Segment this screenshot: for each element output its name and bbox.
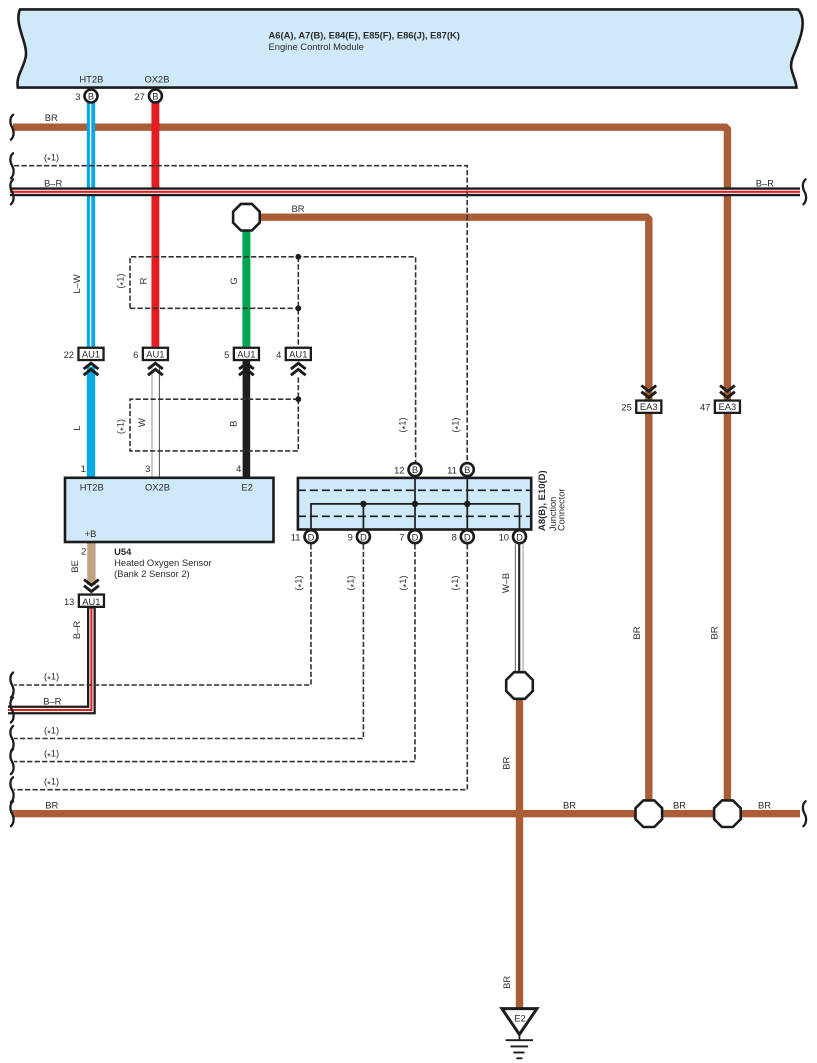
svg-text:A8(B), E10(D): A8(B), E10(D) bbox=[537, 470, 548, 531]
wire break mark left, BR bottom bbox=[10, 801, 13, 826]
svg-text:Connector: Connector bbox=[557, 489, 567, 531]
wire L (blue) AU1 22 to U54 pin 1 bbox=[87, 367, 95, 477]
svg-text:D: D bbox=[412, 531, 419, 542]
wire BE (beige) U54 pin 2 to AU1 13 bbox=[87, 542, 95, 585]
wire break mark right, B-R top bbox=[803, 179, 806, 204]
connector 25 EA3 bbox=[621, 386, 661, 413]
junction pin 10 D bbox=[499, 530, 526, 543]
svg-text:HT2B: HT2B bbox=[80, 482, 104, 493]
svg-text:B–R: B–R bbox=[756, 178, 774, 189]
svg-text:B–R: B–R bbox=[44, 178, 62, 189]
junction pin 12 B bbox=[394, 463, 421, 476]
wire break mark left, (*1) pin 9D bbox=[10, 726, 13, 751]
svg-text:OX2B: OX2B bbox=[144, 74, 169, 85]
dashed box 1 bottom edge bbox=[130, 307, 298, 309]
svg-text:(Bank 2 Sensor 2): (Bank 2 Sensor 2) bbox=[114, 568, 190, 579]
svg-text:47: 47 bbox=[700, 402, 710, 413]
svg-text:A6(A), A7(B), E84(E), E85(F),: A6(A), A7(B), E84(E), E85(F), E86(J), E8… bbox=[269, 30, 460, 41]
connector 5 AU1 bbox=[224, 348, 259, 375]
junction pin 8 D bbox=[452, 530, 474, 543]
connector 47 EA3 bbox=[700, 386, 740, 413]
wire break mark left, B-R top bbox=[10, 179, 13, 204]
svg-text:13: 13 bbox=[64, 596, 74, 607]
svg-text:W: W bbox=[136, 418, 147, 427]
svg-text:BR: BR bbox=[563, 800, 576, 811]
svg-text:+B: +B bbox=[85, 528, 97, 539]
svg-text:8: 8 bbox=[452, 532, 457, 543]
svg-text:EA3: EA3 bbox=[719, 401, 737, 412]
svg-text:BR: BR bbox=[709, 626, 720, 639]
svg-text:BR: BR bbox=[45, 800, 58, 811]
wire R (red) from ECM pin 27 bbox=[151, 103, 159, 347]
junction dot on dashed net bbox=[295, 254, 301, 260]
svg-text:B: B bbox=[152, 91, 158, 102]
junction pin 9 D bbox=[348, 530, 370, 543]
svg-text:B: B bbox=[412, 464, 418, 475]
svg-text:11: 11 bbox=[447, 464, 457, 475]
wire BR from octagon W-B down to ground E2 bbox=[516, 697, 523, 1008]
wire B-R vertical from AU1 13 down and left to edge bbox=[8, 608, 91, 711]
wire break mark left, (*1) dashed bbox=[10, 153, 13, 178]
connector 6 AU1 bbox=[133, 348, 168, 375]
wire B (black) AU1 5 to U54 pin 4 bbox=[243, 361, 251, 477]
svg-text:BR: BR bbox=[673, 800, 686, 811]
svg-text:D: D bbox=[308, 531, 315, 542]
svg-text:U54: U54 bbox=[114, 546, 132, 557]
wire break mark right, BR bottom bbox=[803, 801, 806, 826]
ground symbol E2 bbox=[502, 1009, 537, 1059]
connector 4 AU1 bbox=[276, 348, 311, 375]
wire break mark left, B-R bottom bbox=[10, 698, 13, 723]
wire BR top horizontal + vertical to EA3 47 bbox=[13, 127, 727, 814]
octagon node splice bottom right on BR bbox=[714, 800, 741, 827]
svg-text:BR: BR bbox=[501, 756, 512, 769]
svg-text:11: 11 bbox=[291, 532, 301, 543]
dashed vertical net to AU1 4 lower bbox=[297, 378, 299, 400]
svg-text:AU1: AU1 bbox=[146, 348, 164, 359]
svg-text:B–R: B–R bbox=[71, 621, 82, 639]
junction pin 11 B bbox=[447, 463, 474, 476]
dashed drop junction pin 9D to left edge bbox=[14, 544, 363, 738]
wire break mark left, (*1) pin 8D bbox=[10, 777, 13, 802]
ECM pin 27 circle B bbox=[134, 90, 161, 103]
svg-text:D: D bbox=[516, 531, 523, 542]
junction connector A8(B), E10(D) box bbox=[298, 477, 531, 537]
dashed box 1 top edge to junction pin 12B bbox=[130, 257, 416, 462]
svg-text:BR: BR bbox=[758, 800, 771, 811]
svg-text:B: B bbox=[464, 464, 470, 475]
svg-text:2: 2 bbox=[81, 546, 86, 557]
svg-text:W–B: W–B bbox=[500, 573, 511, 593]
svg-text:D: D bbox=[464, 531, 471, 542]
svg-text:25: 25 bbox=[621, 402, 631, 413]
junction dot on dashed net bbox=[295, 396, 301, 402]
connector 22 AU1 bbox=[64, 348, 104, 375]
dashed drop junction pin 8D to left edge bbox=[14, 544, 467, 790]
svg-text:3: 3 bbox=[145, 463, 150, 474]
wire break mark left, (*1) pin 11D bbox=[10, 673, 13, 698]
svg-text:Engine Control Module: Engine Control Module bbox=[269, 41, 364, 52]
svg-text:4: 4 bbox=[236, 463, 241, 474]
wire G (green) from octagon to AU1 5 bbox=[242, 230, 250, 347]
dashed vertical net to AU1 4 upper bbox=[297, 257, 299, 347]
svg-text:G: G bbox=[228, 277, 239, 284]
octagon node splice (W-B/BR) bbox=[506, 672, 533, 699]
svg-text:AU1: AU1 bbox=[237, 348, 255, 359]
svg-text:10: 10 bbox=[499, 532, 509, 543]
dashed box 2 bbox=[130, 399, 298, 451]
svg-text:6: 6 bbox=[133, 349, 138, 360]
svg-text:HT2B: HT2B bbox=[79, 74, 103, 85]
svg-text:7: 7 bbox=[399, 532, 404, 543]
internal bus bbox=[311, 504, 520, 537]
svg-text:22: 22 bbox=[64, 349, 74, 360]
svg-text:OX2B: OX2B bbox=[145, 482, 170, 493]
svg-text:3: 3 bbox=[75, 91, 80, 102]
octagon node splice (green/BR) bbox=[233, 204, 260, 231]
dashed (*1) top horizontal to junction pin 11B bbox=[14, 166, 467, 462]
ECM pin 3 circle B bbox=[75, 90, 97, 103]
svg-text:12: 12 bbox=[394, 464, 404, 475]
wire W-B junction pin 10 to octagon bbox=[515, 544, 523, 672]
wire B-R horizontal top bbox=[10, 187, 800, 196]
svg-text:E2: E2 bbox=[514, 1013, 525, 1024]
svg-text:1: 1 bbox=[81, 463, 86, 474]
svg-text:E2: E2 bbox=[241, 482, 252, 493]
svg-text:BR: BR bbox=[631, 626, 642, 639]
junction pin 11 D bbox=[291, 530, 318, 543]
wire L-W (blue/white) from ECM pin 3 bbox=[86, 103, 95, 347]
wire W (white) AU1 6 to U54 pin 3 bbox=[152, 365, 159, 477]
svg-text:BR: BR bbox=[45, 112, 58, 123]
svg-text:B–R: B–R bbox=[43, 696, 61, 707]
svg-text:27: 27 bbox=[134, 91, 144, 102]
ECM module band (Engine Control Module) bbox=[17, 9, 802, 87]
svg-text:AU1: AU1 bbox=[289, 348, 307, 359]
wire break mark left, BR top bbox=[10, 115, 13, 140]
dashed drop junction pin 11D to left edge bbox=[14, 544, 311, 685]
octagon node splice bottom left on BR bbox=[636, 800, 663, 827]
svg-text:5: 5 bbox=[224, 349, 229, 360]
wire break mark left, (*1) pin 7D bbox=[10, 749, 13, 774]
svg-text:R: R bbox=[137, 277, 148, 284]
svg-text:B: B bbox=[228, 421, 239, 427]
dashed drop junction pin 7D to left edge bbox=[14, 544, 415, 761]
svg-text:AU1: AU1 bbox=[82, 596, 100, 607]
wire BR from octagon to EA3 25 vertical bbox=[259, 217, 649, 814]
svg-text:BR: BR bbox=[292, 203, 305, 214]
svg-text:D: D bbox=[360, 531, 367, 542]
svg-text:BE: BE bbox=[69, 560, 80, 573]
junction pin 7 D bbox=[399, 530, 421, 543]
connector 13 AU1 bbox=[64, 580, 104, 607]
svg-text:4: 4 bbox=[276, 349, 281, 360]
svg-text:Heated Oxygen Sensor: Heated Oxygen Sensor bbox=[114, 557, 211, 568]
svg-text:L–W: L–W bbox=[71, 274, 82, 293]
junction dot on dashed net bbox=[295, 305, 301, 311]
svg-text:9: 9 bbox=[348, 532, 353, 543]
svg-text:BR: BR bbox=[501, 976, 512, 989]
svg-text:EA3: EA3 bbox=[640, 401, 658, 412]
wire BR bottom horizontal bbox=[12, 810, 800, 817]
svg-text:B: B bbox=[88, 91, 94, 102]
U54 heated oxygen sensor box bbox=[65, 478, 274, 542]
svg-text:AU1: AU1 bbox=[82, 348, 100, 359]
svg-text:L: L bbox=[71, 425, 82, 430]
